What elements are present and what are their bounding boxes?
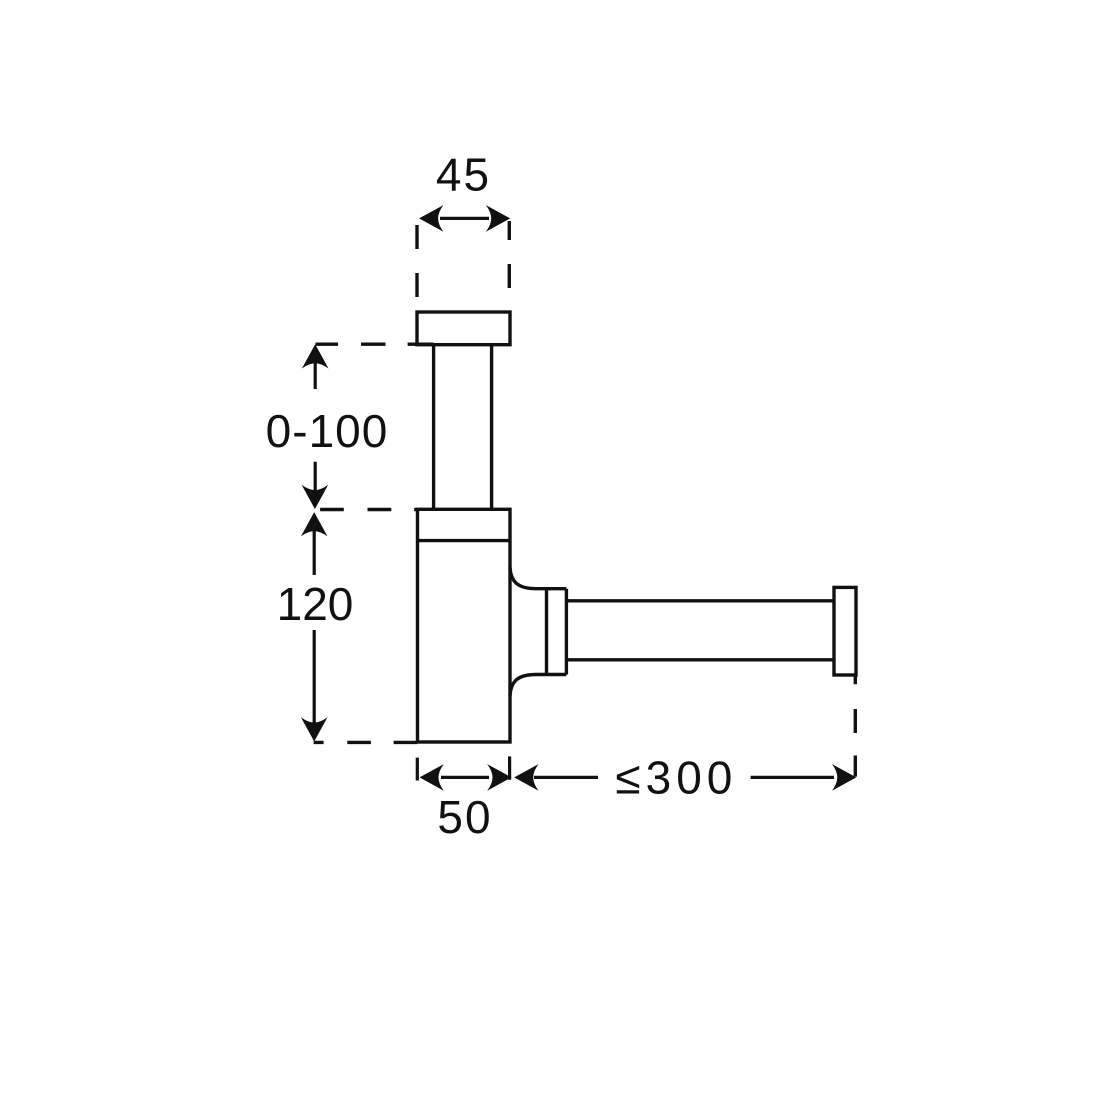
svg-text:50: 50 bbox=[437, 791, 492, 843]
svg-text:45: 45 bbox=[436, 149, 491, 201]
svg-text:≤300: ≤300 bbox=[615, 752, 737, 804]
svg-text:120: 120 bbox=[277, 578, 354, 630]
svg-text:0-100: 0-100 bbox=[266, 405, 389, 457]
